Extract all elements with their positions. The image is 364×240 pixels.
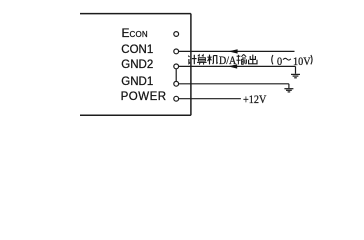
full-width open paren of (0~10V)	[272, 55, 273, 64]
wire CON1 to D/A output	[179, 50, 295, 52]
pin POWER	[174, 96, 179, 101]
box right edge	[190, 14, 192, 116]
CJK glyph 输 (shu)	[236, 54, 246, 64]
pin ECON	[174, 32, 179, 37]
label +12V (power rail)	[243, 94, 266, 105]
ground symbol (power ground)	[284, 89, 293, 92]
CJK glyph 计 (ji) of 计算机	[188, 55, 196, 64]
pin CON1	[174, 49, 179, 54]
arrowhead on GND2 wire	[228, 64, 237, 68]
pin GND1	[174, 81, 179, 86]
wire GND1 to power ground	[179, 83, 289, 85]
wire POWER to +12V	[179, 98, 241, 100]
full-width tilde of 0~10V	[283, 58, 291, 60]
wire stub down to ground from GND1 wire	[288, 84, 290, 89]
box top edge	[80, 13, 191, 15]
label GND1 (pin name)	[121, 77, 153, 88]
box bottom edge	[80, 114, 191, 116]
wire GND2 to signal ground	[179, 65, 296, 67]
pin GND2	[174, 64, 179, 69]
wire link between GND2 and GND1 pins	[175, 69, 177, 82]
label 0 (first digit of (0~10V))	[277, 56, 282, 67]
label ECON (pin name, E with subscript CON)	[122, 28, 148, 40]
label CON1 (pin name)	[121, 45, 153, 56]
connector box U1 (interface card edge, open on left)	[0, 0, 364, 132]
label POWER (pin name)	[121, 92, 167, 103]
wire stub down to ground from GND2 wire	[295, 66, 297, 73]
CJK glyph 出 (chu)	[249, 55, 257, 64]
CJK glyph 算 (suan)	[197, 55, 207, 65]
label D/A (latin part of 计算机D/A输出)	[219, 55, 236, 66]
CJK glyph 机 (ji)	[207, 55, 217, 65]
full-width close paren of (0~10V)	[311, 55, 312, 64]
label GND2 (pin name)	[121, 60, 153, 71]
ground symbol (signal ground)	[291, 74, 300, 77]
arrowhead on CON1 wire (signal into CON1)	[228, 49, 237, 53]
label 10V of (0~10V)	[293, 56, 311, 67]
